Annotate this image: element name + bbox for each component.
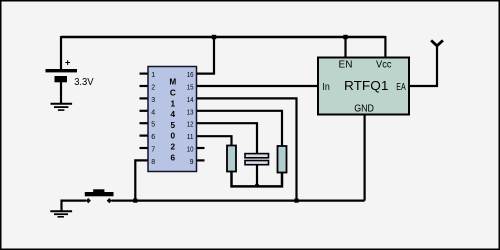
wire: EN riser bbox=[344, 37, 346, 58]
svg-text:6: 6 bbox=[151, 134, 155, 141]
svg-text:In: In bbox=[322, 82, 329, 93]
svg-text:RTFQ1: RTFQ1 bbox=[344, 78, 388, 93]
svg-text:16: 16 bbox=[187, 72, 194, 79]
junction: EN/V+ rail bbox=[343, 35, 347, 39]
RF module RTFQ1 bbox=[318, 58, 409, 115]
wire: battery negative lead to ground bbox=[60, 82, 62, 104]
battery BT1 3.3V bbox=[46, 58, 94, 89]
U1 pin numbers 1-8 and 16-9 bbox=[151, 72, 193, 166]
wire: ground rail right segment bbox=[112, 200, 365, 202]
U1 part label MC145026 (vertical) bbox=[169, 78, 176, 163]
svg-text:5: 5 bbox=[171, 121, 176, 130]
wire: pin1 stub bbox=[140, 72, 149, 74]
wire: pin5 stub bbox=[140, 122, 149, 124]
svg-text:1: 1 bbox=[151, 72, 155, 79]
svg-text:6: 6 bbox=[171, 153, 176, 162]
wire: Vcc riser bbox=[384, 36, 386, 58]
wire: pin2 stub bbox=[140, 85, 149, 87]
antenna AE1 bbox=[431, 40, 443, 45]
svg-text:+: + bbox=[65, 58, 71, 69]
svg-text:2: 2 bbox=[171, 143, 176, 152]
svg-text:1: 1 bbox=[171, 99, 176, 108]
svg-text:5: 5 bbox=[151, 122, 155, 129]
wire: V+ top rail bbox=[61, 36, 385, 39]
wire: resonator bottom connector bbox=[232, 172, 283, 187]
svg-text:3: 3 bbox=[151, 97, 155, 104]
wire: pin3 stub bbox=[140, 97, 149, 99]
resistor R2 bbox=[278, 146, 287, 173]
wire: pin11 to R1 top bbox=[197, 136, 232, 145]
svg-text:EA: EA bbox=[396, 82, 406, 93]
capacitor C1 bbox=[245, 154, 269, 165]
svg-text:4: 4 bbox=[171, 110, 176, 119]
wire: EA to antenna bbox=[409, 46, 437, 87]
wire: pin12 to capacitor top bbox=[197, 123, 258, 153]
wire: pin13 to R2 top bbox=[197, 111, 283, 146]
svg-text:9: 9 bbox=[190, 159, 194, 166]
svg-text:7: 7 bbox=[151, 147, 155, 154]
wire: capacitor bottom lead bbox=[256, 165, 258, 187]
junction: capacitor/resonator connector bbox=[255, 184, 259, 188]
svg-text:GND: GND bbox=[354, 104, 374, 115]
wire: ground rail left segment bbox=[62, 200, 87, 202]
svg-text:8: 8 bbox=[151, 159, 155, 166]
wire: pin16 to V+ rail bbox=[197, 37, 215, 74]
ground (battery) bbox=[51, 104, 73, 110]
svg-text:14: 14 bbox=[187, 97, 194, 104]
wire: pin4 stub bbox=[140, 110, 149, 112]
junction: pin16/V+ rail bbox=[212, 35, 216, 39]
wire: pin10 stub bbox=[197, 147, 205, 149]
svg-text:M: M bbox=[169, 78, 176, 87]
IC U1 MC145026 bbox=[148, 67, 197, 172]
svg-text:EN: EN bbox=[339, 60, 353, 71]
svg-text:13: 13 bbox=[187, 109, 194, 116]
wire: RTFQ1 GND lead bbox=[364, 115, 366, 201]
svg-text:10: 10 bbox=[187, 147, 194, 154]
wire: pin7 stub bbox=[140, 147, 149, 149]
ground (button) bbox=[50, 200, 72, 217]
svg-text:11: 11 bbox=[187, 134, 194, 141]
svg-text:4: 4 bbox=[151, 109, 155, 116]
wire: pin14 to ground rail bbox=[197, 98, 297, 200]
wire: pin8 to ground rail bbox=[135, 160, 148, 200]
wire: battery positive lead bbox=[60, 36, 62, 69]
resistor R1 bbox=[227, 146, 236, 172]
svg-text:15: 15 bbox=[187, 85, 194, 92]
push button SW1 bbox=[85, 189, 114, 203]
svg-text:3.3V: 3.3V bbox=[74, 77, 94, 88]
svg-text:0: 0 bbox=[171, 132, 176, 141]
junction: pin14/ground rail bbox=[294, 199, 298, 203]
svg-text:12: 12 bbox=[187, 122, 194, 129]
wire: pin15 to RTFQ1 In bbox=[197, 85, 319, 87]
wire: pin9 stub bbox=[197, 159, 205, 161]
wire: pin6 stub bbox=[140, 135, 149, 137]
svg-text:C: C bbox=[170, 89, 176, 98]
junction: pin8/ground rail bbox=[133, 199, 137, 203]
svg-text:Vcc: Vcc bbox=[376, 60, 391, 71]
svg-text:2: 2 bbox=[151, 85, 155, 92]
